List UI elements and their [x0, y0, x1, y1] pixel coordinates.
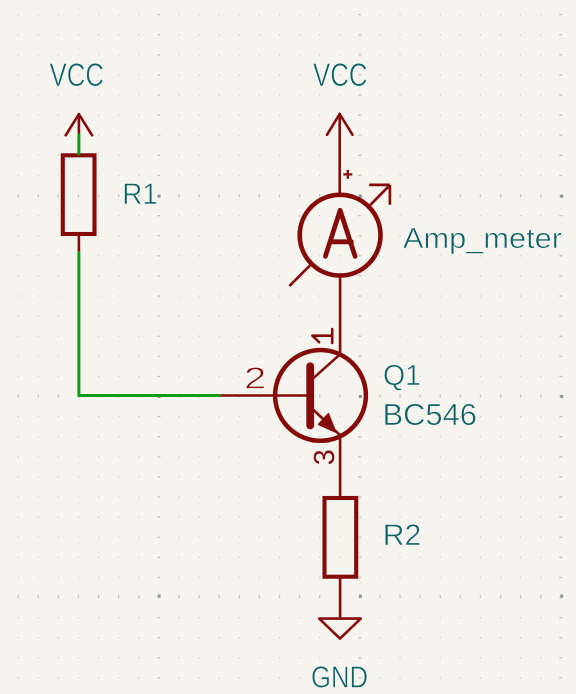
amp meter letter A	[325, 210, 355, 256]
Q1 collector diagonal	[312, 354, 341, 380]
Q1 emitter arrow	[319, 414, 336, 432]
transistor Q1 circle	[275, 350, 366, 441]
power symbol VCC (left)	[66, 114, 92, 135]
svg-text:BC546: BC546	[383, 397, 478, 432]
svg-text:Q1: Q1	[383, 360, 421, 392]
wire meter to Q1 collector	[339, 278, 342, 355]
+ polarity mark	[343, 170, 352, 179]
amp meter arrow shaft (lower-left segment)	[289, 265, 310, 286]
wire VCC to R1	[77, 134, 80, 156]
ground symbol	[319, 619, 361, 639]
svg-text:VCC: VCC	[50, 57, 105, 93]
amp meter arrow head	[369, 185, 390, 205]
svg-text:R2: R2	[383, 519, 422, 552]
amp meter U1 circle	[300, 195, 381, 276]
svg-text:VCC: VCC	[313, 57, 368, 93]
resistor R2	[325, 498, 357, 577]
pin number 1	[313, 329, 333, 343]
Q1 base pin (pin 2)	[221, 394, 307, 397]
wire Q1 emitter to R2	[339, 435, 342, 496]
Q1 emitter diagonal	[312, 408, 341, 435]
amp meter arrow shaft (upper-right segment)	[370, 185, 390, 205]
svg-text:3: 3	[309, 449, 341, 465]
R1 bottom pin	[78, 236, 81, 252]
svg-text:Amp_meter: Amp_meter	[403, 223, 563, 255]
power symbol VCC (center)	[327, 114, 353, 193]
svg-text:R1: R1	[122, 178, 158, 211]
svg-text:2: 2	[244, 361, 266, 396]
svg-text:GND: GND	[311, 660, 368, 694]
wire R1 down and right to Q1 base	[79, 252, 221, 396]
Q1 base bar	[306, 366, 314, 425]
R2 bottom pin	[339, 578, 342, 619]
resistor R1	[63, 155, 95, 234]
